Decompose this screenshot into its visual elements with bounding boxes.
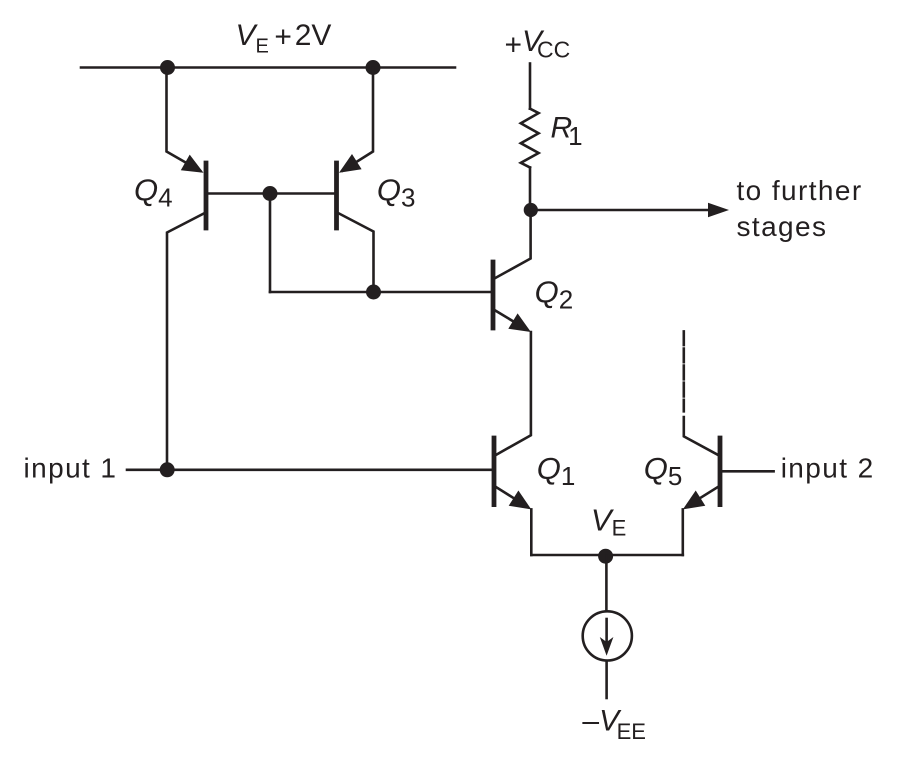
wire: current source to -VEE xyxy=(605,661,608,698)
wire: Q2 emitter down to Q1 collector xyxy=(496,332,531,455)
wire: Q5 emitter xyxy=(700,487,717,498)
node junction rail / Q4 emitter xyxy=(160,60,175,75)
svg-text:input 1: input 1 xyxy=(24,453,118,484)
wire: VE+2V supply rail xyxy=(81,66,455,69)
transistor Q4 base bar xyxy=(204,163,209,228)
wire: Q3 collector down to Q2 base node xyxy=(339,214,374,293)
transistor Q5 base bar xyxy=(718,438,723,505)
wire: +VCC lead xyxy=(529,64,532,109)
wire: base node down to Q2 base line xyxy=(269,194,272,293)
svg-text:VE + 2V: VE + 2V xyxy=(236,19,332,58)
wire: Q1 emitter down to VE rail xyxy=(530,509,533,555)
wire: Q2 collector up to output node xyxy=(495,210,530,278)
resistor R1 xyxy=(521,109,539,168)
node junction rail / Q3 emitter xyxy=(366,60,381,75)
transistor Q2 emitter arrow xyxy=(508,313,531,332)
svg-text:to further: to further xyxy=(737,175,863,206)
svg-text:–VEE: –VEE xyxy=(582,705,646,744)
transistor Q3 emitter arrow xyxy=(339,154,362,173)
wire: Q4 collector down to input 1 node xyxy=(167,214,204,471)
transistor Q4 emitter arrow xyxy=(181,155,204,173)
svg-text:Q4: Q4 xyxy=(134,172,173,212)
wire: VE node to current source xyxy=(605,556,608,612)
transistor Q1 base bar xyxy=(492,438,497,505)
wire: input 1 line to Q1 base xyxy=(127,468,492,471)
wire: Q2 emitter xyxy=(495,311,513,322)
current source arrow head xyxy=(600,637,614,656)
wire: Q5 collector dashed (to unseen circuit) xyxy=(682,331,685,411)
wire: output to further stages xyxy=(531,209,710,212)
wire: Q4 base to Q3 base xyxy=(208,192,334,195)
wire: Q5 collector solid segment xyxy=(684,417,718,455)
transistor Q1 emitter arrow xyxy=(509,491,532,510)
current source arrow shaft xyxy=(605,619,608,643)
node VE junction xyxy=(598,549,613,564)
svg-text:R1: R1 xyxy=(551,111,583,151)
wire: Q5 emitter down to VE rail xyxy=(681,509,684,555)
node junction R1 / Q2 collector / output xyxy=(524,203,538,217)
transistor Q5 emitter arrow xyxy=(683,491,706,510)
arrow to further stages xyxy=(708,203,729,217)
node junction Q3 collector / Q2 base xyxy=(366,285,381,300)
node junction input1 / Q4 collector xyxy=(160,462,175,477)
current source circle xyxy=(583,611,632,660)
transistor Q3 base bar xyxy=(334,163,339,228)
svg-text:stages: stages xyxy=(737,211,828,242)
svg-text:Q1: Q1 xyxy=(537,451,576,491)
svg-text:Q5: Q5 xyxy=(644,451,683,491)
wire: R1 to output node xyxy=(529,168,532,211)
svg-text:Q2: Q2 xyxy=(535,274,574,314)
svg-text:+VCC: +VCC xyxy=(505,25,571,63)
wire: Q2 base line xyxy=(270,291,491,294)
wire: Q1 emitter xyxy=(496,487,513,498)
transistor Q2 base bar xyxy=(491,262,496,328)
wire: VE emitter rail xyxy=(531,554,683,557)
svg-text:input 2: input 2 xyxy=(781,453,875,484)
wire: Q3 emitter from rail xyxy=(343,68,374,171)
svg-text:Q3: Q3 xyxy=(377,172,416,212)
node junction bases / Q2 base wire xyxy=(263,186,278,201)
wire: Q5 base to input 2 xyxy=(722,470,773,473)
wire: Q4 emitter from rail xyxy=(167,68,201,171)
svg-text:VE: VE xyxy=(591,503,626,541)
